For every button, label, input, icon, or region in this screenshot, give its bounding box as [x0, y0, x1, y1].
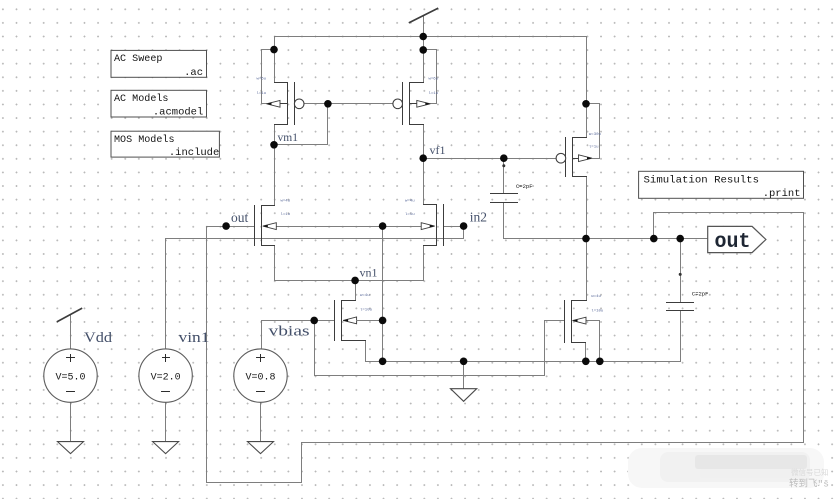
Simulation Results .print directive box	[639, 171, 804, 200]
svg-text:.include: .include	[169, 147, 219, 159]
wire: C2 top lead	[680, 239, 682, 303]
size label M7 w/l	[591, 295, 604, 313]
ground symbol under V3	[248, 442, 274, 454]
transistor M6 (PMOS output driver)	[556, 138, 592, 177]
svg-text:vm1: vm1	[278, 132, 299, 144]
wire: M5 source leg	[365, 341, 367, 362]
wire: vn1 to M5 drain	[355, 281, 357, 301]
svg-text:C=2pF: C=2pF	[516, 183, 533, 190]
svg-text:w=30u: w=30u	[589, 133, 602, 137]
wire: M7 source leg	[585, 343, 587, 362]
node vf1: wire to M6 gate	[424, 158, 557, 160]
junction: diff bulk tee	[379, 222, 387, 230]
svg-text:.ac: .ac	[184, 67, 203, 79]
wire: M2 gate to in2	[444, 226, 464, 228]
transistor M1 (NMOS diff pair left)	[255, 206, 277, 246]
devices	[44, 9, 766, 454]
svg-text:l=1u: l=1u	[405, 212, 415, 217]
svg-text:Vdd: Vdd	[84, 330, 113, 346]
voltage source V3 vbias V=0.8	[234, 349, 287, 402]
AC Sweep .ac directive box	[111, 50, 207, 78]
size label M4 w/l	[429, 78, 439, 97]
svg-text:l=1u: l=1u	[429, 91, 439, 96]
ground symbol under V2	[153, 442, 179, 454]
node vn1: tail wire	[275, 280, 424, 282]
wire: diff pair bulk tie left	[277, 226, 383, 228]
wire: M6 drain to out node	[586, 177, 588, 239]
wire: M2 source leg down	[423, 246, 425, 281]
wire: out node down to M7 drain	[586, 239, 588, 301]
wire: VDD top rail	[275, 37, 587, 104]
wire: M7 bulk tie	[587, 321, 600, 362]
wire: V3 ground lead	[260, 403, 262, 442]
wire: out node to M1 gate	[227, 226, 255, 228]
wire: M1 source leg down	[274, 246, 276, 281]
svg-text:vn1: vn1	[360, 266, 378, 280]
svg-text:vbias: vbias	[269, 324, 310, 340]
svg-text:vf1: vf1	[430, 143, 446, 157]
capacitor C2 (load, C=2pF)	[667, 273, 694, 311]
svg-text:MOS Models: MOS Models	[114, 134, 175, 146]
wire: diff pair bulk tie right	[383, 226, 422, 228]
svg-text:V=2.0: V=2.0	[151, 373, 181, 384]
wire: V2 ground lead	[165, 403, 167, 442]
wire: M3 bulk loop	[262, 50, 275, 104]
transistor M2 (NMOS diff pair right)	[421, 205, 443, 246]
junction: node vf1	[419, 154, 427, 162]
wire: M4 gate to mirror node	[328, 103, 394, 105]
junction: node out at M1 gate	[222, 222, 230, 230]
wire: M3 gate to mirror node	[304, 103, 328, 105]
wire: vm1 down to M1 drain	[274, 145, 276, 206]
output port "out"	[708, 226, 766, 254]
junction: M6 source/bulk	[582, 100, 590, 108]
junction: M5 bulk tee	[379, 317, 387, 325]
MOS Models .include directive box	[111, 131, 219, 159]
wire: ground stem	[463, 362, 465, 389]
ground symbol under V1	[58, 442, 84, 454]
svg-text:l=1u: l=1u	[257, 91, 267, 96]
svg-text:C=2pF: C=2pF	[692, 290, 709, 297]
watermark	[628, 448, 829, 490]
junction: node vn1	[351, 277, 359, 285]
svg-text:w=4u: w=4u	[405, 200, 415, 204]
svg-text:AC Models: AC Models	[114, 93, 169, 105]
wire: C2 bottom lead	[680, 311, 682, 362]
voltage source V1 Vdd V=5.0	[44, 309, 97, 403]
junction: out node feedback tap	[650, 235, 658, 243]
wire: C1 bottom lead	[503, 203, 505, 239]
svg-text:in2: in2	[470, 209, 487, 224]
junction: out node at M6/M7	[582, 235, 590, 243]
node vm1: wire to gate mirror	[275, 104, 328, 145]
wire: M3 drain leg to vm1	[274, 125, 276, 145]
wire: in2 net to vin1	[166, 227, 464, 349]
junction: vdd rail / power stem	[419, 33, 427, 41]
transistor M3 (PMOS mirror left)	[267, 83, 305, 125]
junction: node vm1	[270, 141, 278, 149]
capacitor C1 (compensation, C=2pF)	[491, 164, 518, 202]
wire: C1 top lead	[503, 159, 505, 194]
svg-text:V=0.8: V=0.8	[245, 373, 275, 384]
junction: ground stem	[460, 358, 468, 366]
svg-text:w=4u: w=4u	[360, 294, 370, 298]
svg-text:Simulation Results: Simulation Results	[644, 175, 760, 187]
svg-text:l=10u: l=10u	[591, 308, 604, 313]
svg-text:.acmodel: .acmodel	[153, 107, 203, 119]
junction: node vbias	[310, 317, 318, 325]
size label M6 w/l	[589, 133, 602, 150]
wire: M6 source leg	[586, 104, 588, 138]
svg-text:w=6u: w=6u	[257, 78, 267, 82]
junction: out node C2 tap	[676, 235, 684, 243]
svg-text:out: out	[715, 231, 751, 254]
svg-text:AC Sweep: AC Sweep	[114, 53, 163, 65]
junction: M3 source/bulk	[270, 46, 278, 54]
junction: vf1 / C1 tap	[500, 154, 508, 162]
wire: M3 source leg	[274, 50, 276, 83]
svg-text:.print: .print	[763, 188, 801, 200]
svg-text:l=10u: l=10u	[360, 308, 373, 313]
svg-text:w=4u: w=4u	[591, 295, 601, 299]
wire: M4 drain leg to vf1	[423, 125, 425, 159]
junction: M7 source on ground rail	[582, 358, 590, 366]
ground symbol (tail/second stage)	[451, 389, 477, 402]
AC Models .acmodel directive box	[111, 90, 207, 118]
wire: vbias to M7 gate run	[315, 321, 565, 376]
wire: vbias node to V3	[262, 321, 315, 349]
wire: M6 bulk loop	[587, 104, 600, 159]
transistor M4 (PMOS mirror right)	[393, 83, 430, 125]
wire: out node rail	[504, 238, 708, 240]
wire: M4 bulk loop	[424, 50, 437, 104]
size label M2 w/l	[405, 200, 415, 218]
svg-text:l=1u: l=1u	[589, 144, 599, 149]
voltage source V2 vin1 V=2.0	[139, 349, 192, 402]
wire: vdd power stem to rail	[423, 17, 425, 50]
SPICE boxes	[111, 50, 804, 199]
size label M3 w/l	[257, 78, 267, 97]
size label M1 w/l	[281, 200, 291, 218]
transistor M7 (NMOS output sink)	[565, 301, 587, 343]
size label M5 w/l	[360, 294, 373, 313]
junction: M4 source/bulk	[419, 46, 427, 54]
junction: bulk drop on ground rail	[379, 358, 387, 366]
svg-text:out: out	[231, 210, 249, 225]
svg-text:V=5.0: V=5.0	[55, 373, 85, 384]
transistor M5 (NMOS tail current source)	[335, 301, 383, 341]
wire: bulk drop to M5 bulk and ground	[382, 227, 384, 362]
wire: M4 source leg	[423, 50, 425, 83]
svg-text:l=1u: l=1u	[281, 212, 291, 217]
wire: vbias node to M5 gate	[315, 320, 335, 322]
svg-text:转到飞"š: 转到飞"š	[789, 478, 829, 490]
wire: V1 Vdd stem	[70, 315, 72, 349]
wire: vf1 down to M2 drain	[423, 159, 425, 205]
junction: mirror gate node	[324, 100, 332, 108]
wire: out feedback loop	[207, 213, 804, 483]
power symbol VDD (top)	[410, 9, 438, 23]
wire: V1 ground lead	[70, 403, 72, 442]
svg-text:w=4u: w=4u	[281, 200, 291, 204]
svg-text:w=6u: w=6u	[429, 78, 439, 82]
junction: M7 bulk on ground rail	[596, 358, 604, 366]
svg-text:vin1: vin1	[179, 330, 210, 346]
junction: node in2	[460, 222, 468, 230]
wire: ground rail	[366, 361, 681, 363]
